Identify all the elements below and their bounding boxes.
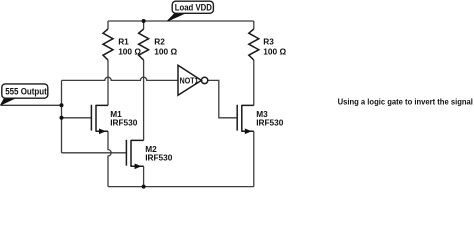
wire 555 output to bus bbox=[1, 104, 62, 106]
wire NOT1 output to M3 gate bbox=[208, 80, 237, 117]
node junction dot R2 top bbox=[142, 19, 146, 23]
wire bottom rail bbox=[108, 186, 254, 188]
transistor M2 bbox=[126, 140, 143, 167]
wire R3 bottom to M3 drain bbox=[253, 60, 255, 105]
wire left input bus bbox=[61, 80, 63, 152]
svg-text:Load VDD: Load VDD bbox=[175, 3, 212, 13]
transistor M3 bbox=[237, 105, 254, 132]
wire M1 gate bbox=[62, 117, 92, 119]
transistor M1 arrow bbox=[99, 129, 106, 135]
wire M1 source to ground rail with hop over M2 gate wire bbox=[108, 131, 111, 186]
transistor M1 bbox=[91, 105, 108, 132]
svg-text:IRF530: IRF530 bbox=[110, 117, 138, 127]
wire NOT1 input from bus with hops over R1 and R2 lines bbox=[62, 77, 179, 80]
svg-text:R1: R1 bbox=[118, 36, 129, 46]
label flag Load VDD bbox=[168, 1, 214, 21]
wire R2 bottom to M2 drain bbox=[143, 60, 145, 140]
svg-text:100 Ω: 100 Ω bbox=[263, 46, 286, 56]
svg-text:IRF530: IRF530 bbox=[256, 117, 284, 127]
label flag 555 Output bbox=[1, 84, 48, 105]
svg-text:555 Output: 555 Output bbox=[5, 87, 47, 97]
wire M3 source down bbox=[253, 131, 255, 186]
wire R3 top stub bbox=[253, 21, 255, 29]
transistor M3 arrow bbox=[245, 129, 252, 135]
svg-text:NOT1: NOT1 bbox=[180, 76, 199, 86]
resistor R2 bbox=[139, 29, 149, 60]
svg-text:100 Ω: 100 Ω bbox=[154, 46, 177, 56]
wire top rail VDD bbox=[108, 20, 254, 22]
wire R1 bottom to M1 drain bbox=[107, 60, 109, 105]
svg-text:Using a logic gate to invert t: Using a logic gate to invert the signal bbox=[338, 97, 473, 106]
svg-text:100 Ω: 100 Ω bbox=[118, 46, 141, 56]
node junction dot 555 output at bus bbox=[60, 103, 64, 107]
resistor R3 bbox=[249, 29, 259, 60]
node junction dot M2 source at rail bbox=[142, 185, 146, 189]
resistor R1 bbox=[103, 29, 113, 60]
wire R2 top stub bbox=[143, 21, 145, 29]
NOT1 output bubble bbox=[201, 77, 207, 83]
svg-text:R3: R3 bbox=[263, 36, 274, 46]
wire M2 source down bbox=[143, 166, 145, 186]
svg-text:IRF530: IRF530 bbox=[145, 152, 173, 162]
transistor M2 arrow bbox=[135, 164, 142, 170]
wire M2 gate from bus corner bbox=[62, 152, 127, 154]
op-amp U1 / NOT gate NOT1 triangle bbox=[178, 65, 201, 95]
svg-text:R2: R2 bbox=[154, 36, 165, 46]
node junction dot M1 gate at bus bbox=[60, 116, 64, 120]
wire R1 top stub bbox=[107, 21, 109, 29]
